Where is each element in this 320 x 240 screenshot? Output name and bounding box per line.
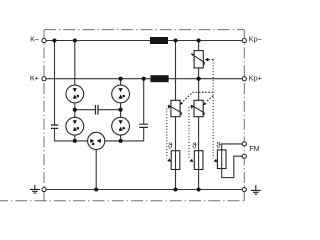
coupling link into RV1 [208,59,213,61]
PTC thermistor RT3 body [217,150,226,169]
wire K+ bus left segment [46,78,150,80]
svg-text:ϑ: ϑ [192,140,197,150]
node K- / I1 junction [73,38,77,42]
terminal K- [42,38,46,42]
node K+ / RV3 junction [196,77,200,81]
wire K- bus right segment [168,40,242,42]
wire capacitor C3 bottom lead [143,127,145,141]
svg-text:Kp+: Kp+ [249,73,262,82]
thermal coupling dotted line to RT1 [166,109,168,159]
node I4 / C3 junction [119,139,123,143]
enclosure border left [43,30,45,188]
svg-text:K+: K+ [30,73,39,82]
terminal ground left [42,187,46,191]
varistor RV2 arrow [168,105,181,115]
inductor bead L2 [150,75,168,82]
node I3 / I5 junction [73,139,77,143]
current source I2 [112,85,130,103]
node K- / RV2 junction [173,38,177,42]
wire lower left horizontal [54,140,88,142]
enclosure border bottom [0,200,244,202]
node K+ / I2 junction [119,77,123,81]
border stub below right ground terminal [243,192,245,201]
node K+ / C3 junction [142,77,146,81]
thermal coupling dotted line to RT2 [188,107,190,158]
inductor bead L1 [150,37,168,44]
varistor RV3 body [194,100,203,116]
capacitor C2 [96,105,99,115]
PTC thermistor RT1 body [171,151,180,170]
terminal ground right [242,187,246,191]
wire K+ bus right segment [169,78,243,80]
terminal FM lower [242,154,246,158]
svg-text:K–: K– [30,35,39,44]
svg-text:ϑ: ϑ [168,140,173,150]
wire I2 to I4 link [120,103,122,117]
node ground / I5 junction [94,187,98,191]
wire capacitor C1 bottom lead [54,128,56,141]
node C2 left junction [73,108,77,112]
wire varistor column A [175,41,177,190]
svg-text:ϑ: ϑ [216,140,221,150]
terminal Kp- [242,38,246,42]
border stub below left ground terminal [43,192,45,201]
wire capacitor C2 right lead [98,109,121,111]
node C2 right junction [119,108,123,112]
enclosure border right [243,30,245,188]
wire I1 to I3 link [74,103,76,117]
current source I5 [88,132,105,149]
terminal FM upper [242,142,246,146]
capacitor C3 [139,124,148,127]
wire current source I1 top lead [74,41,76,86]
current source I3 [66,117,84,135]
wire lower middle horizontal [105,140,144,142]
varistor RV3 arrow [191,105,204,115]
wire K- bus left segment [46,40,150,42]
wire current source I2 top lead [120,79,122,85]
wire capacitor C1 top lead [54,41,56,126]
current source I1 [66,85,84,103]
svg-text:FM: FM [249,144,259,153]
wire ground bus [46,189,242,191]
current source I4 [112,117,130,135]
wire capacitor C2 left lead [75,109,96,111]
wire I3 bottom lead [74,135,76,141]
capacitor C1 [51,125,58,128]
node K- / C1 junction [52,38,56,42]
coupling link into RV3 [206,96,213,102]
wire thermistor RT3 lower lead to FM [222,156,243,177]
node K- / RV1 junction [197,38,201,42]
coupling link into RV2 [182,92,213,102]
enclosure border top [44,29,244,31]
varistor RV1 body [194,51,203,68]
wire varistor column B [198,41,200,190]
ground symbol right [251,185,261,194]
terminal K+ [42,77,46,81]
wire current source I5 bottom lead [95,150,97,190]
wire capacitor C3 top lead [143,79,145,125]
thermal coupling dotted line to RT3 [212,60,214,159]
varistor RV1 arrow [191,54,204,65]
svg-text:Kp–: Kp– [249,35,262,44]
wire I4 bottom lead [120,135,122,141]
PTC thermistor RT2 body [194,151,203,170]
varistor RV2 body [171,100,180,116]
node ground / RT2 junction [197,187,201,191]
terminal Kp+ [242,77,246,81]
wire thermistor RT3 upper lead to FM [222,144,243,150]
ground symbol left [30,185,40,193]
node ground / RT1 junction [173,187,177,191]
